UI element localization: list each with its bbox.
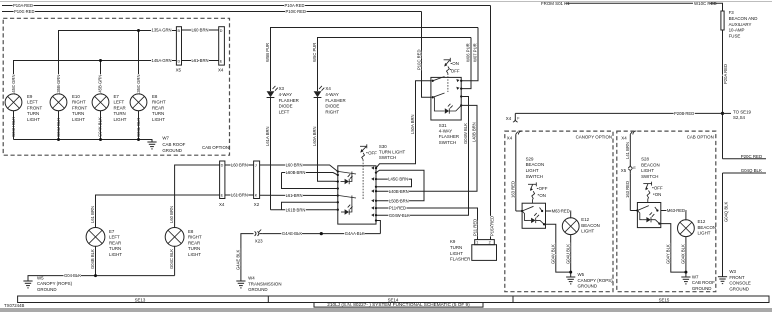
wire G04U BLK (canopy lamp ground) xyxy=(565,235,572,278)
svg-text:FRONT: FRONT xyxy=(27,105,42,110)
diode X4 4-way flasher diode right xyxy=(314,86,346,115)
wire L61 BRN (X4-X2 lower) xyxy=(225,193,254,198)
cab option dashed box top-left xyxy=(3,18,229,155)
svg-text:E7: E7 xyxy=(109,229,115,234)
fuse F3 beacon and auxiliary 10-amp xyxy=(721,10,757,38)
svg-text:L41 BRN: L41 BRN xyxy=(625,142,630,159)
lamp E9 left front turn light xyxy=(5,94,42,122)
svg-text:145C GRN: 145C GRN xyxy=(11,75,16,95)
cab option dashed box (right) xyxy=(617,131,716,292)
wire L60B BRN loop xyxy=(282,170,338,188)
svg-text:L60 BRN: L60 BRN xyxy=(192,28,209,33)
svg-text:FLASHER: FLASHER xyxy=(450,257,470,262)
svg-text:FRONT: FRONT xyxy=(72,105,87,110)
svg-text:CANOPY (ROPS): CANOPY (ROPS) xyxy=(37,281,73,286)
svg-text:J: J xyxy=(255,163,257,167)
connector X5 (cab inline) xyxy=(621,166,637,174)
svg-text:TURN: TURN xyxy=(109,246,121,251)
connector X23 xyxy=(255,230,264,244)
svg-text:LIGHT: LIGHT xyxy=(114,117,127,122)
wire M63 RED (cab) xyxy=(661,208,686,220)
svg-text:D: D xyxy=(220,29,223,33)
S30 toggle xyxy=(360,144,377,200)
svg-text:2: 2 xyxy=(489,241,491,245)
svg-text:L61A BRN: L61A BRN xyxy=(265,126,270,146)
wire L50A BRN (S31 to S30) xyxy=(376,81,431,168)
wire L61 BRN to E7 xyxy=(90,195,220,228)
wire G04B BLK xyxy=(90,246,95,275)
svg-text:L40B BRN: L40B BRN xyxy=(472,122,477,142)
wire L61A BRN xyxy=(312,98,338,182)
wire G04V BLK (canopy switch ground) xyxy=(544,224,571,272)
svg-text:L61 BRN: L61 BRN xyxy=(90,206,95,223)
wire L60A BRN xyxy=(265,98,270,210)
svg-text:ON: ON xyxy=(539,193,546,198)
svg-text:CAB ROOF: CAB ROOF xyxy=(692,280,715,285)
wire P11 RED (S30 to K9) xyxy=(376,206,478,240)
svg-text:LIGHT: LIGHT xyxy=(641,168,654,173)
S31 internal contacts xyxy=(432,77,463,114)
svg-text:LIGHT: LIGHT xyxy=(526,168,539,173)
wire L60 BRN (X4-X2 lower) xyxy=(225,163,254,168)
lamp E8 right rear turn light (cab) xyxy=(130,94,166,122)
svg-text:G04B BLK: G04B BLK xyxy=(90,249,95,269)
svg-text:L60 BRN: L60 BRN xyxy=(169,206,174,223)
svg-text:X4: X4 xyxy=(218,68,224,73)
svg-text:GROUND: GROUND xyxy=(692,286,712,291)
S30 internal contacts and diodes xyxy=(337,166,378,216)
wire G04X BLK (cab lamp ground) xyxy=(681,237,688,278)
svg-text:P10A RED: P10A RED xyxy=(285,3,305,8)
svg-text:G4AE BLK: G4AE BLK xyxy=(236,250,241,270)
relay K9 turn light flasher xyxy=(450,239,497,261)
svg-text:W06 PUR: W06 PUR xyxy=(466,43,471,62)
svg-text:4-WAY: 4-WAY xyxy=(325,92,338,97)
wire P10C RED top xyxy=(2,9,422,14)
svg-text:D: D xyxy=(178,59,181,63)
svg-text:G04 BLK: G04 BLK xyxy=(64,273,81,278)
svg-text:L61 BRN: L61 BRN xyxy=(192,58,209,63)
wire W06 PUR xyxy=(461,38,471,89)
svg-text:BEACON: BEACON xyxy=(698,225,717,230)
svg-text:S31: S31 xyxy=(439,123,447,128)
ground W7 cab roof (right) xyxy=(681,274,715,291)
svg-text:LIGHT: LIGHT xyxy=(72,117,85,122)
svg-text:TURN: TURN xyxy=(27,111,39,116)
svg-text:X4: X4 xyxy=(507,136,513,141)
svg-text:P20C RED: P20C RED xyxy=(741,154,762,159)
svg-text:CAB OPTION: CAB OPTION xyxy=(202,145,229,150)
wire L41 BRN (cab) xyxy=(625,134,630,165)
svg-text:P11 RED: P11 RED xyxy=(472,219,477,236)
switch S28 beacon light switch xyxy=(636,157,663,228)
svg-text:E8: E8 xyxy=(188,229,194,234)
svg-text:F3: F3 xyxy=(729,10,735,15)
svg-text:GROUND: GROUND xyxy=(578,284,598,289)
svg-text:BEACON: BEACON xyxy=(581,223,600,228)
svg-text:G04Q BLK: G04Q BLK xyxy=(724,202,729,222)
svg-text:LEFT: LEFT xyxy=(114,100,125,105)
switch S29 beacon light switch xyxy=(521,156,548,228)
lamp E8 right rear turn light xyxy=(165,228,202,258)
svg-text:W7: W7 xyxy=(692,274,699,279)
svg-text:SE13: SE13 xyxy=(135,297,146,302)
wire P20A RED xyxy=(721,30,728,159)
svg-text:K9: K9 xyxy=(450,239,456,244)
wire G04C BLK xyxy=(169,246,174,275)
svg-text:D: D xyxy=(221,163,224,167)
svg-text:135A GRN: 135A GRN xyxy=(152,28,172,33)
svg-text:G4AA BLK: G4AA BLK xyxy=(345,231,365,236)
svg-text:LIGHT: LIGHT xyxy=(581,229,594,234)
svg-text:W5C PUR: W5C PUR xyxy=(312,43,317,62)
svg-text:W5: W5 xyxy=(578,272,585,277)
connector X4 (cab top) xyxy=(621,131,636,141)
svg-text:CAB ROOF: CAB ROOF xyxy=(162,142,185,147)
svg-text:TO SE19: TO SE19 xyxy=(733,110,752,115)
svg-text:X2: X2 xyxy=(254,202,260,207)
svg-text:RIGHT: RIGHT xyxy=(72,100,86,105)
svg-text:DIODE: DIODE xyxy=(325,104,339,109)
svg-text:TURN: TURN xyxy=(188,246,200,251)
svg-text:S30: S30 xyxy=(379,144,387,149)
wire P10C RED to S31 xyxy=(416,12,431,98)
svg-text:RIGHT: RIGHT xyxy=(325,109,339,114)
svg-text:BEACON: BEACON xyxy=(641,162,660,167)
svg-text:TURN: TURN xyxy=(152,111,164,116)
lamp E12 beacon light (cab) xyxy=(678,219,717,237)
wire L40B BRN (S31 to S30) xyxy=(376,105,477,193)
svg-text:E12: E12 xyxy=(581,217,589,222)
svg-text:FRONT: FRONT xyxy=(729,275,744,280)
wire L61 BRN (X2 to S30) xyxy=(260,193,338,198)
svg-text:P20B RED: P20B RED xyxy=(674,111,694,116)
svg-text:E10: E10 xyxy=(72,94,80,99)
lamp E7 left rear turn light xyxy=(86,228,122,258)
svg-text:S28: S28 xyxy=(641,157,649,162)
switch S30 turn light switch box xyxy=(338,144,406,224)
ground W3 front console xyxy=(718,269,751,291)
svg-text:G4AE BLK: G4AE BLK xyxy=(282,231,302,236)
svg-text:L61 BRN: L61 BRN xyxy=(286,193,303,198)
svg-text:L60A BRN: L60A BRN xyxy=(312,126,317,146)
svg-text:X4: X4 xyxy=(506,116,512,121)
svg-text:BEACON AND: BEACON AND xyxy=(729,16,758,21)
connector X5 xyxy=(176,27,182,73)
svg-text:G04U BLK: G04U BLK xyxy=(565,244,570,264)
svg-text:CANOPY OPTION: CANOPY OPTION xyxy=(576,135,613,140)
svg-text:4-WAY: 4-WAY xyxy=(279,92,292,97)
svg-text:G04X BLK: G04X BLK xyxy=(681,244,686,264)
svg-text:145B GRN: 145B GRN xyxy=(98,75,103,95)
bottom gray bar xyxy=(0,308,772,312)
svg-text:X4: X4 xyxy=(325,86,331,91)
wire L60 BRN (X2 to S30) xyxy=(260,162,338,171)
svg-text:G04Y BLK: G04Y BLK xyxy=(665,244,670,264)
wire L61B BRN loop xyxy=(271,202,338,212)
wire W5B PUR xyxy=(265,28,478,92)
svg-text:REAR: REAR xyxy=(114,105,126,110)
svg-text:G04V BLK: G04V BLK xyxy=(550,244,555,264)
svg-text:DIODE: DIODE xyxy=(279,104,293,109)
ground W5 canopy rops xyxy=(23,275,72,292)
svg-text:S2,S4: S2,S4 xyxy=(733,115,746,120)
svg-text:L61B BRN: L61B BRN xyxy=(286,207,306,212)
svg-text:FUSE: FUSE xyxy=(729,33,741,38)
svg-text:E12: E12 xyxy=(698,219,706,224)
svg-text:P11 RED: P11 RED xyxy=(389,206,406,211)
svg-text:ON: ON xyxy=(452,61,459,66)
svg-text:S29: S29 xyxy=(526,156,534,161)
svg-text:LEFT: LEFT xyxy=(279,109,290,114)
wire W5C PUR xyxy=(312,38,471,92)
svg-text:W07 PUR: W07 PUR xyxy=(473,43,478,62)
wire 163 RED (canopy) xyxy=(510,134,522,211)
lamp E12 beacon light (canopy) xyxy=(562,217,600,235)
connector X4 (top) xyxy=(218,27,224,73)
svg-text:SWITCH: SWITCH xyxy=(439,140,456,145)
wire L50B BRN jumper xyxy=(376,170,424,203)
svg-text:1: 1 xyxy=(476,241,478,245)
svg-text:LIGHT: LIGHT xyxy=(152,117,165,122)
svg-text:P10C RED: P10C RED xyxy=(416,50,421,70)
svg-text:REAR: REAR xyxy=(152,105,164,110)
wire G04 BLK bus to W5 xyxy=(28,273,175,281)
wire 145A GRN feeder xyxy=(14,58,177,94)
svg-text:10-AMP: 10-AMP xyxy=(729,28,745,33)
svg-text:135C GRN: 135C GRN xyxy=(136,75,141,95)
wire P10A RED drop to K9 xyxy=(490,6,495,240)
svg-text:X5: X5 xyxy=(621,168,627,173)
wire P10A RED top xyxy=(2,3,491,8)
svg-text:M63 RED: M63 RED xyxy=(552,209,570,214)
svg-text:CONSOLE: CONSOLE xyxy=(729,281,751,286)
wire L60 BRN (X5-X4) xyxy=(182,28,219,33)
svg-text:LIGHT: LIGHT xyxy=(450,251,463,256)
svg-text:G04C BLK: G04C BLK xyxy=(169,249,174,269)
svg-text:RIGHT: RIGHT xyxy=(188,235,202,240)
wire W10C RED from S01 xyxy=(541,1,723,11)
wire S30 ground drop xyxy=(375,219,381,233)
svg-text:E7: E7 xyxy=(114,94,120,99)
svg-text:P20A RED: P20A RED xyxy=(723,64,728,84)
wire L45C BRN jumper xyxy=(376,177,412,187)
wire P20C RED stub xyxy=(723,154,767,159)
svg-text:OFF: OFF xyxy=(654,185,663,190)
diode X3 4-way flasher diode left xyxy=(267,86,299,115)
svg-text:REAR: REAR xyxy=(188,240,200,245)
svg-text:RIGHT: RIGHT xyxy=(152,100,166,105)
svg-text:W7: W7 xyxy=(162,136,169,141)
svg-text:W5B PUR: W5B PUR xyxy=(265,43,270,62)
svg-text:X23: X23 xyxy=(255,239,263,244)
svg-text:GROUND: GROUND xyxy=(162,148,182,153)
svg-text:TURN: TURN xyxy=(72,111,84,116)
svg-text:TURN: TURN xyxy=(450,245,462,250)
connector X2 xyxy=(254,161,260,207)
svg-text:GROUND: GROUND xyxy=(248,287,268,292)
svg-text:X4: X4 xyxy=(219,202,225,207)
svg-text:OFF: OFF xyxy=(539,186,548,191)
wire G4AE BLK / G4AA BLK bus xyxy=(262,231,380,236)
svg-text:CAB OPTION: CAB OPTION xyxy=(687,135,714,140)
svg-text:L60 BRN: L60 BRN xyxy=(231,163,248,168)
wire G04Q BLK stub and drop xyxy=(723,168,767,277)
svg-text:FLASHER: FLASHER xyxy=(279,98,299,103)
wire G4AE BLK to W4 ground xyxy=(236,234,254,281)
svg-text:GROUND: GROUND xyxy=(37,287,57,292)
svg-text:L60 BRN: L60 BRN xyxy=(286,162,303,167)
svg-text:G04Q BLK: G04Q BLK xyxy=(741,168,762,173)
connector X4 pin F (right) xyxy=(506,113,521,122)
wire 135A GRN feeder xyxy=(59,28,177,94)
connector X4 (lower) xyxy=(219,161,225,207)
svg-text:W3: W3 xyxy=(729,269,736,274)
svg-text:L40B BRN: L40B BRN xyxy=(389,189,409,194)
svg-text:W4: W4 xyxy=(248,276,255,281)
svg-text:163 RED: 163 RED xyxy=(625,181,630,198)
ground W7 cab roof xyxy=(147,136,185,153)
svg-text:TURN LIGHT: TURN LIGHT xyxy=(379,150,406,155)
ground W4 transmission xyxy=(236,276,281,293)
svg-text:E8: E8 xyxy=(152,94,158,99)
page top border xyxy=(0,1,772,3)
wire L60 BRN to E8 xyxy=(169,165,219,228)
svg-text:135B GRN: 135B GRN xyxy=(56,75,61,95)
wire M63 RED (canopy) xyxy=(546,209,571,219)
svg-text:G04W BLK: G04W BLK xyxy=(389,213,410,218)
svg-text:OFF: OFF xyxy=(368,151,377,156)
svg-text:M63 RED: M63 RED xyxy=(667,208,685,213)
svg-text:GROUND: GROUND xyxy=(729,286,749,291)
svg-text:OFF: OFF xyxy=(451,69,460,74)
svg-text:4-WAY: 4-WAY xyxy=(439,129,452,134)
svg-text:X5: X5 xyxy=(176,68,182,73)
lamp E7 left rear turn light (cab) xyxy=(92,94,127,122)
svg-text:TURN: TURN xyxy=(114,111,126,116)
svg-text:LIGHT: LIGHT xyxy=(109,252,122,257)
svg-text:L50A BRN: L50A BRN xyxy=(410,114,415,134)
switch S31 4-way flasher switch xyxy=(431,77,461,144)
svg-text:SWITCH: SWITCH xyxy=(379,155,396,160)
wire L61 BRN (X5-X4) xyxy=(182,58,219,63)
connector X4 (canopy top) xyxy=(507,131,522,141)
svg-text:210LJ (S.N. 80227- ) SYSTEM FU: 210LJ (S.N. 80227- ) SYSTEM FUNCTIONAL S… xyxy=(327,302,470,307)
svg-text:G04W BLK: G04W BLK xyxy=(463,123,468,144)
wire W07 PUR xyxy=(461,28,478,81)
svg-text:P10C RED: P10C RED xyxy=(14,9,34,14)
svg-text:SE15: SE15 xyxy=(659,297,670,302)
wire 163 RED (cab) xyxy=(625,173,638,210)
svg-text:145A GRN: 145A GRN xyxy=(152,58,172,63)
svg-text:L45C BRN: L45C BRN xyxy=(388,177,408,182)
svg-text:E9: E9 xyxy=(27,94,33,99)
wire P20B RED xyxy=(515,110,751,121)
svg-text:L50B BRN: L50B BRN xyxy=(389,198,409,203)
svg-text:CANOPY (ROPS): CANOPY (ROPS) xyxy=(578,278,614,283)
title block xyxy=(4,302,483,308)
svg-text:LIGHT: LIGHT xyxy=(27,117,40,122)
svg-text:W5: W5 xyxy=(37,275,44,280)
svg-text:163 RED: 163 RED xyxy=(510,181,515,198)
svg-text:L61 BRN: L61 BRN xyxy=(231,193,248,198)
svg-text:L60B BRN: L60B BRN xyxy=(286,170,306,175)
ground W5 canopy (right) xyxy=(566,272,613,289)
canopy option dashed box xyxy=(505,131,613,292)
svg-text:FLASHER: FLASHER xyxy=(439,134,459,139)
svg-text:FROM S01 K1: FROM S01 K1 xyxy=(541,1,570,6)
svg-text:SWITCH: SWITCH xyxy=(526,174,543,179)
svg-text:LIGHT: LIGHT xyxy=(698,231,711,236)
wire G04Y BLK (cab switch ground) xyxy=(659,224,686,273)
svg-text:TX07244B: TX07244B xyxy=(4,303,24,308)
svg-text:BEACON: BEACON xyxy=(526,162,545,167)
ground bus cab roof xyxy=(14,111,153,142)
section bar SE13/SE14/SE15 xyxy=(18,296,769,303)
svg-text:X4: X4 xyxy=(621,136,627,141)
svg-text:SWITCH: SWITCH xyxy=(641,174,658,179)
svg-text:FLASHER: FLASHER xyxy=(325,98,345,103)
svg-text:P10A RED: P10A RED xyxy=(13,3,33,8)
svg-text:REAR: REAR xyxy=(109,240,121,245)
S31 toggle ON/OFF xyxy=(444,58,460,92)
svg-text:ON: ON xyxy=(655,192,662,197)
wire G04W BLK (S31 to S30) xyxy=(376,97,469,218)
lamp E10 right front turn light xyxy=(50,94,87,122)
svg-text:LEFT: LEFT xyxy=(27,100,38,105)
svg-text:P10C RED: P10C RED xyxy=(286,9,306,14)
svg-text:TRANSMISSION: TRANSMISSION xyxy=(248,281,281,286)
svg-text:LEFT: LEFT xyxy=(109,235,120,240)
svg-text:P16A RED: P16A RED xyxy=(490,216,495,236)
svg-text:X3: X3 xyxy=(279,86,285,91)
svg-text:AUXILIARY: AUXILIARY xyxy=(729,22,752,27)
svg-text:LIGHT: LIGHT xyxy=(188,252,201,257)
